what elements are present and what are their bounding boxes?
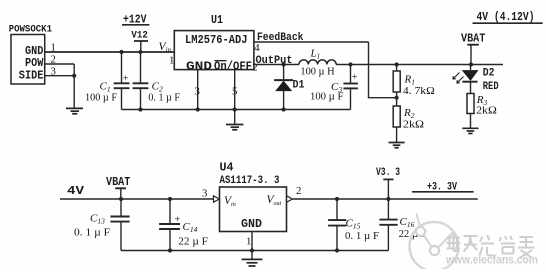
pin 3 wire (SIDE) [45,65,74,77]
net 4V input [60,184,214,199]
junction pin3 bottom [196,107,200,111]
diode D1 [274,65,305,110]
net V3.3 [376,167,400,199]
svg-text:D1: D1 [293,80,305,92]
pin 2 output arrow [287,185,302,202]
watermark logo [410,214,459,272]
junction feedback/R1/R2 [395,96,399,100]
pin 1 wire (GND) [45,42,175,54]
svg-text:5: 5 [232,86,237,98]
svg-text:4: 4 [254,42,260,54]
junction D1 bottom [282,107,286,111]
svg-text:VBAT: VBAT [461,32,485,46]
junction U4 gnd [250,248,254,252]
capacitor C1 100uF [85,52,130,110]
net +3.3V [412,182,474,194]
ground symbol (connector) [66,108,83,113]
capacitor C2 0.1uF [133,52,181,110]
regulator U1 LM2576-ADJ [174,14,254,74]
ground symbol (U4) [242,259,263,266]
pin 4 FeedBack wire [254,32,369,54]
resistor R2 2k [393,106,424,142]
svg-text:1: 1 [169,55,174,67]
junction C2 [138,50,142,54]
svg-text:0. 1 µ F: 0. 1 µ F [148,93,180,104]
junction C14 bottom [168,248,172,252]
inductor L 100uH [299,48,336,78]
wire pin2 to ground [73,64,75,108]
junction R1 [395,62,399,66]
svg-text:3: 3 [202,188,207,200]
bottom ground rail [121,250,388,252]
pin 5 wire (ON/OFF) [232,70,237,124]
svg-text:100 µ F: 100 µ F [85,93,117,104]
ground symbol (R2) [389,143,405,148]
svg-text:22 µ F: 22 µ F [178,237,208,248]
svg-text:4. 7kΩ: 4. 7kΩ [403,86,435,97]
ground symbol (U1) [226,125,243,130]
svg-text:3: 3 [51,65,56,77]
svg-text:www.elecfans.com: www.elecfans.com [445,255,538,267]
svg-text:+: + [123,73,129,84]
svg-text:D2: D2 [483,68,495,80]
junction C13 [119,197,123,201]
svg-text:0. 1 µ F: 0. 1 µ F [345,231,379,242]
pin 2 wire (POW) [45,54,74,66]
feedback wire to divider [369,42,397,98]
resistor R1 4.7k [393,65,435,107]
wire input rail [45,51,175,53]
watermark text [447,233,535,258]
svg-text:4V (4.12V): 4V (4.12V) [477,11,535,24]
regulator U4 AS1117-3.3 [220,162,287,232]
svg-text:+: + [352,72,358,83]
pin 2 OutPut wire [252,55,299,73]
svg-text:2kΩ: 2kΩ [403,120,424,131]
net V12 [131,29,148,52]
svg-text:On/OFF: On/OFF [214,60,252,73]
svg-text:100 µ H: 100 µ H [300,66,335,77]
pin 1 GND wire [246,232,252,259]
svg-text:V3. 3: V3. 3 [376,167,400,179]
capacitor C14 22uF [159,199,208,251]
svg-text:GND: GND [241,218,262,231]
junction VBAT/D2 [469,62,473,66]
junction pin3 [72,74,76,78]
svg-text:2: 2 [296,185,301,197]
capacitor C3 100uF [310,65,358,110]
svg-text:AS1117-3. 3: AS1117-3. 3 [220,175,280,187]
LED D2 RED [453,65,499,94]
net +12V [122,13,149,26]
svg-text:RED: RED [483,81,499,93]
svg-text:VBAT: VBAT [106,175,130,189]
connector POWSOCK1 [9,24,52,84]
junction C16/V3.3 [386,197,390,201]
junction C1 [119,50,123,54]
svg-text:POWSOCK1: POWSOCK1 [9,24,52,36]
svg-text:0. 1 µ F: 0. 1 µ F [74,228,110,239]
svg-text:V12: V12 [131,29,147,41]
ground rail [122,109,351,111]
svg-text:2: 2 [252,61,257,73]
junction D1 [282,62,286,66]
junction C3 [348,62,352,66]
pin Vin label [159,41,175,67]
capacitor C13 0.1uF [74,199,130,251]
svg-text:POW: POW [25,57,43,70]
ground symbol (R3) [462,128,478,133]
svg-text:FeedBack: FeedBack [257,32,304,44]
junction pin5 bottom [233,107,237,111]
svg-text:+: + [175,214,181,225]
net VBAT (bottom) [106,175,130,199]
junction C2 bottom [138,107,142,111]
svg-text:U1: U1 [211,14,223,27]
pin 3 wire (U1 GND) [195,70,200,110]
wire output rail [336,64,503,66]
svg-text:2kΩ: 2kΩ [476,105,497,116]
wire output rail (3.3V) [292,198,477,200]
net VBAT [461,32,485,65]
svg-text:2: 2 [51,54,56,66]
svg-text:LM2576-ADJ: LM2576-ADJ [185,33,248,47]
svg-text:GND: GND [186,60,212,73]
resistor R3 2k [467,94,497,129]
svg-text:OutPut: OutPut [256,55,293,67]
junction C15 bottom [335,248,339,252]
svg-text:4V: 4V [67,184,85,198]
svg-text:SIDE: SIDE [19,69,44,82]
pin 3 input arrow [202,188,219,203]
svg-text:100 µ F: 100 µ F [310,92,344,103]
junction C15 [335,197,339,201]
svg-text:1: 1 [246,236,251,248]
capacitor C15 0.1uF [328,199,379,251]
junction C14 [168,197,172,201]
svg-text:3: 3 [195,86,200,98]
svg-text:U4: U4 [220,162,234,175]
capacitor C16 22uF [379,199,426,251]
net 4V (4.12V) [473,11,543,24]
